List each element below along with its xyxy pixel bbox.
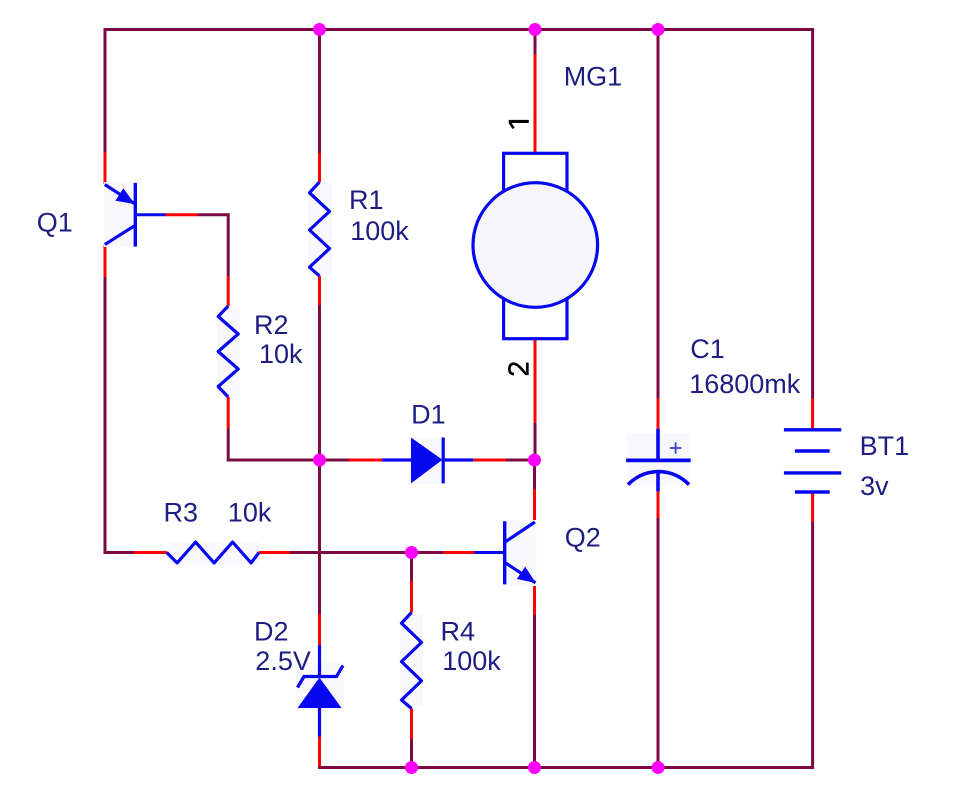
wire R2 top pin red xyxy=(227,276,230,306)
svg-text:100k: 100k xyxy=(442,646,501,676)
wire R3 left pin red xyxy=(134,551,167,554)
wire Q2 collector pin red xyxy=(533,490,536,522)
junction node bottom rail at R4 xyxy=(405,761,418,774)
wire Q1 base to R2 xyxy=(198,215,229,276)
wire Q2 emitter to bottom rail xyxy=(533,615,536,768)
svg-text:BT1: BT1 xyxy=(860,431,910,461)
wire Q2 base pin red xyxy=(444,551,475,554)
wire C1 top pin red xyxy=(657,399,660,429)
junction node top rail at R1 xyxy=(313,23,326,36)
wire R3 right pin red xyxy=(259,551,290,554)
wire Q1 collector pin red xyxy=(104,245,107,277)
wire node to D2 xyxy=(318,460,321,614)
wire R2 bottom to node xyxy=(228,429,314,461)
svg-text:Q1: Q1 xyxy=(37,208,73,238)
wire BT1 column bottom xyxy=(811,522,814,769)
wire top rail xyxy=(105,28,813,31)
wire BT1 column top xyxy=(811,28,814,399)
label MG1 pin 1 xyxy=(509,121,529,128)
wire node to Q2 collector xyxy=(533,460,536,490)
wire D2 bottom pin red xyxy=(318,737,321,767)
wire MG1 pin1 red xyxy=(534,54,537,152)
wire R1 column top xyxy=(318,30,321,154)
junction node top rail at MG1 xyxy=(529,23,542,36)
resistor R3 xyxy=(167,542,259,565)
wire D1 right pin red xyxy=(473,459,506,462)
svg-text:R4: R4 xyxy=(441,617,476,647)
svg-text:R1: R1 xyxy=(349,185,384,215)
junction node top rail at C1 xyxy=(652,23,665,36)
wire R4 node to top pin xyxy=(410,553,413,582)
resistor R2 xyxy=(217,306,240,397)
wire R1 top pin red xyxy=(318,153,321,182)
battery BT1 xyxy=(784,430,841,492)
resistor R4 xyxy=(400,613,423,709)
zener diode D2 xyxy=(295,645,344,737)
wire C1 column bottom xyxy=(657,518,660,768)
svg-text:C1: C1 xyxy=(690,334,725,364)
capacitor C1 xyxy=(626,429,691,492)
wire D1 node to left pin xyxy=(320,459,350,462)
wire Q1 emitter pin red xyxy=(104,153,107,185)
wire R1 bottom pin red xyxy=(318,276,321,305)
wire C1 column top xyxy=(657,30,660,399)
svg-text:10k: 10k xyxy=(228,498,272,528)
svg-text:10k: 10k xyxy=(259,339,303,369)
junction node bottom rail at Q2 xyxy=(528,761,541,774)
diode D1 xyxy=(382,437,473,484)
wire D1 left pin red xyxy=(349,459,383,462)
svg-text:100k: 100k xyxy=(350,216,409,246)
svg-text:R3: R3 xyxy=(164,498,199,528)
wire D1 right to node xyxy=(506,459,535,462)
wire D2 top pin red xyxy=(318,614,321,645)
motor MG1 xyxy=(473,153,598,338)
svg-text:2.5V: 2.5V xyxy=(255,646,311,676)
wire left column lower xyxy=(105,277,134,554)
svg-text:D2: D2 xyxy=(254,617,289,647)
wire R3 to Q2 base xyxy=(290,551,444,554)
wire BT1 bottom pin red xyxy=(811,492,814,522)
resistor R1 xyxy=(308,182,332,276)
wire R4 bottom pin red xyxy=(410,709,413,740)
transistor Q1 xyxy=(104,182,166,247)
wire Q2 emitter pin red xyxy=(533,583,536,615)
wire R1 bottom to node xyxy=(318,305,321,460)
wire motor column top xyxy=(534,30,537,55)
svg-text:16800mk: 16800mk xyxy=(689,369,801,399)
wire R2 bottom pin red xyxy=(227,397,230,429)
svg-text:3v: 3v xyxy=(860,471,889,501)
wire R4 bottom to rail xyxy=(410,739,413,768)
svg-text:MG1: MG1 xyxy=(564,62,623,92)
wire R4 top pin red xyxy=(410,581,413,613)
wire left column upper xyxy=(104,28,107,153)
wire C1 bottom pin red xyxy=(657,491,660,518)
wire MG1 pin2 to node xyxy=(534,422,537,460)
wire BT1 top pin red xyxy=(811,399,814,430)
transistor Q2 xyxy=(475,520,538,586)
svg-text:D1: D1 xyxy=(411,400,446,430)
junction node Q2 base / R4 xyxy=(405,546,418,559)
wire MG1 pin2 red xyxy=(534,339,537,423)
wire bottom rail xyxy=(320,767,813,768)
label MG1 pin 2 xyxy=(509,363,527,374)
junction node bottom rail at C1 xyxy=(652,761,665,774)
junction node D1 left xyxy=(313,454,326,467)
junction node D1 right xyxy=(528,454,541,467)
wire Q1 base pin red xyxy=(166,213,198,216)
svg-text:Q2: Q2 xyxy=(565,522,601,552)
svg-text:R2: R2 xyxy=(254,310,289,340)
